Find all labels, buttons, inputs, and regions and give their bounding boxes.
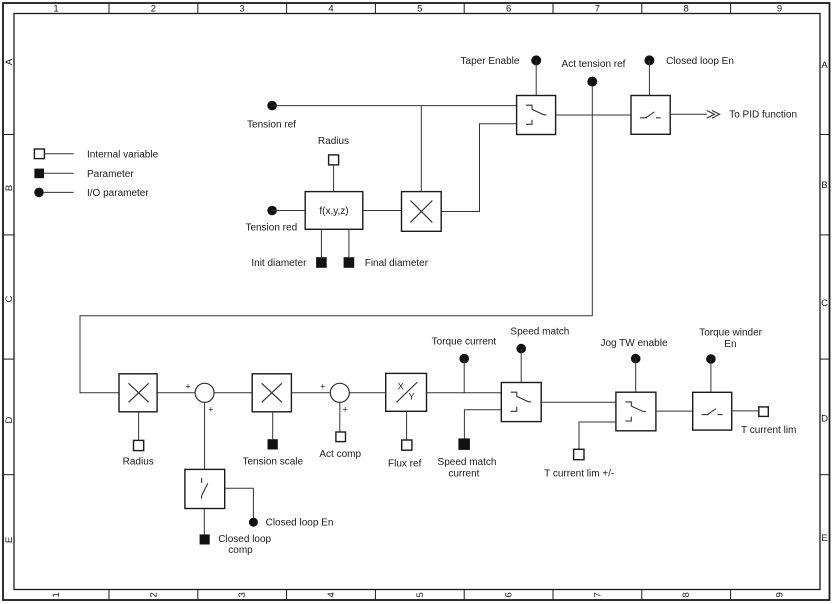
internal variable T current lim [741, 407, 796, 436]
svg-text:En: En [724, 339, 736, 350]
left ruler letters (rotated) [4, 58, 15, 543]
svg-text:Closed loop En: Closed loop En [266, 517, 334, 528]
svg-text:C: C [4, 295, 15, 302]
internal variable Radius (bottom) [123, 440, 154, 467]
I/O terminal Torque current [432, 337, 497, 364]
wire: multiplier M1 to switch SW1 lower input [441, 124, 516, 212]
svg-text:+: + [320, 381, 325, 391]
svg-text:+: + [208, 405, 213, 415]
wire: M2 to summing node S1 [157, 392, 195, 394]
wire: SW4 lower input from Speed match current [464, 410, 501, 439]
wire: SW1 output to switch SW2 [556, 114, 631, 116]
wire: f block to Final diameter parameter [348, 229, 350, 257]
svg-text:B: B [821, 180, 827, 191]
svg-text:Torque winder: Torque winder [699, 328, 762, 339]
svg-text:Final diameter: Final diameter [365, 258, 429, 269]
svg-text:8: 8 [681, 592, 692, 597]
parameter Init diameter [251, 257, 326, 269]
svg-text:Speed match: Speed match [438, 457, 497, 468]
svg-text:Act tension ref: Act tension ref [562, 59, 626, 70]
svg-text:5: 5 [417, 4, 422, 15]
wire: S1 down to switch SW3 [204, 402, 206, 469]
wire: f block to multiplier M1 [363, 210, 402, 212]
svg-text:current: current [448, 468, 479, 479]
svg-text:Init diameter: Init diameter [251, 258, 307, 269]
top ruler numbers [53, 4, 782, 15]
svg-text:A: A [4, 58, 15, 65]
wire: SW5 to switch SW6 [656, 410, 693, 412]
svg-text:Jog TW enable: Jog TW enable [600, 338, 668, 349]
wire: Tension red to f block [272, 210, 305, 212]
svg-text:4: 4 [328, 4, 333, 15]
svg-text:Taper Enable: Taper Enable [461, 56, 520, 67]
function block f(x,y,z) [305, 192, 363, 230]
legend: I/O parameter symbol [34, 188, 149, 199]
I/O terminal Closed loop En (bottom) [249, 517, 334, 528]
svg-text:A: A [821, 60, 828, 71]
wire: Taper Enable to switch SW1 [535, 60, 537, 95]
switch SW3 (closed loop comp) [185, 469, 225, 508]
svg-text:f(x,y,z): f(x,y,z) [319, 206, 348, 217]
svg-text:Torque current: Torque current [432, 337, 497, 348]
internal variable Act comp [319, 432, 361, 460]
wire: M3 to summing node S2 [291, 392, 330, 394]
internal variable Radius (top) [318, 136, 349, 165]
svg-text:Parameter: Parameter [87, 169, 134, 180]
wire: SW6 output to T current lim [732, 410, 759, 412]
switch SW2 (closed loop enable) [631, 96, 670, 135]
svg-text:Tension ref: Tension ref [247, 119, 296, 130]
wire: Closed loop En to switch SW2 [648, 60, 650, 95]
svg-text:5: 5 [415, 592, 426, 597]
svg-text:6: 6 [506, 4, 511, 15]
wire: S1 to multiplier M3 [214, 392, 252, 394]
svg-text:7: 7 [592, 592, 603, 597]
I/O terminal Act tension ref [562, 59, 626, 87]
svg-text:+: + [342, 405, 347, 415]
internal variable T current lim +/- [544, 449, 614, 479]
wire: D1 to Flux ref internal variable [406, 411, 408, 440]
wire: SW3 bottom to Closed loop comp parameter [203, 509, 205, 535]
summing node S2 [320, 381, 349, 414]
I/O terminal Jog TW enable [600, 338, 668, 363]
wire: S2 to divider D1 [349, 392, 385, 394]
parameter Speed match current [438, 438, 497, 479]
svg-text:3: 3 [240, 4, 245, 15]
multiplier M2 [119, 374, 157, 412]
right ruler letters [821, 60, 828, 544]
svg-text:Flux ref: Flux ref [388, 459, 422, 470]
svg-text:3: 3 [237, 592, 248, 597]
svg-text:Tension red: Tension red [245, 222, 297, 233]
left ruler ticks [3, 135, 14, 475]
I/O terminal Tension red [245, 206, 297, 234]
svg-text:1: 1 [51, 592, 62, 597]
switch SW1 (taper select) [517, 96, 556, 135]
svg-text:D: D [4, 416, 15, 423]
svg-text:X: X [398, 381, 404, 391]
svg-text:Speed match: Speed match [510, 326, 569, 337]
svg-text:2: 2 [148, 592, 159, 597]
wire: Radius square to f block [333, 165, 335, 192]
I/O terminal Tension ref [247, 101, 296, 131]
svg-text:7: 7 [595, 4, 600, 15]
wire: Torque winder En to switch SW6 [710, 359, 712, 392]
svg-text:E: E [4, 537, 15, 543]
svg-text:2: 2 [151, 4, 156, 15]
multiplier M3 (tension scale) [252, 374, 291, 412]
svg-text:E: E [821, 533, 827, 544]
svg-text:9: 9 [777, 4, 782, 15]
I/O terminal Closed loop En (top) [644, 55, 734, 67]
arrow to PID function [707, 110, 797, 121]
summing node S1 [185, 381, 214, 414]
legend: parameter symbol [34, 169, 134, 180]
svg-text:Closed loop: Closed loop [218, 534, 271, 545]
I/O terminal Torque winder En [699, 328, 762, 364]
svg-text:9: 9 [775, 592, 786, 597]
wire: Torque current down to main wire [463, 359, 465, 393]
svg-text:4: 4 [326, 592, 337, 597]
I/O terminal Speed match [510, 326, 569, 353]
wire: SW4 to switch SW5 [541, 401, 616, 403]
svg-text:To PID function: To PID function [729, 110, 797, 121]
wire: Speed match to switch SW4 [520, 349, 522, 383]
wire: SW3 side output to Closed loop En terminal [225, 488, 254, 518]
svg-text:comp: comp [228, 545, 253, 556]
wire: f block to Init diameter parameter [320, 229, 322, 257]
wire: SW5 lower input from T current lim +/- [579, 422, 616, 449]
svg-text:Radius: Radius [123, 457, 154, 468]
svg-text:6: 6 [504, 592, 515, 597]
svg-text:Closed loop En: Closed loop En [666, 56, 734, 67]
svg-text:T current lim: T current lim [741, 425, 796, 436]
right ruler ticks [820, 135, 830, 475]
multiplier M1 [402, 192, 442, 232]
divider D1 (x/y) [386, 373, 427, 411]
switch SW5 (jog select) [616, 392, 656, 431]
wire: Act tension ref long feedback down-left to multiplier M2 [80, 87, 592, 393]
wire: tap down to multiplier M1 [420, 106, 422, 192]
parameter Closed loop comp [200, 534, 272, 556]
legend: internal variable symbol [34, 149, 158, 160]
svg-text:B: B [4, 185, 15, 191]
svg-text:D: D [821, 414, 828, 425]
wire: Jog TW enable to switch SW5 [635, 359, 637, 393]
svg-text:Act comp: Act comp [319, 449, 361, 460]
bottom ruler numbers (rotated) [51, 592, 786, 597]
svg-text:8: 8 [684, 4, 689, 15]
I/O terminal Taper Enable [461, 55, 542, 67]
svg-text:Internal variable: Internal variable [87, 149, 159, 160]
svg-text:T current lim +/-: T current lim +/- [544, 468, 614, 479]
bottom ruler ticks [109, 590, 731, 601]
svg-text:+: + [185, 381, 190, 391]
svg-text:Y: Y [409, 392, 415, 402]
svg-text:Radius: Radius [318, 136, 349, 147]
svg-text:I/O parameter: I/O parameter [87, 188, 149, 199]
svg-text:Tension scale: Tension scale [243, 457, 304, 468]
parameter Final diameter [344, 257, 429, 269]
wire: M2 to Radius internal variable [138, 412, 140, 441]
internal variable Flux ref [388, 440, 422, 470]
wire: D1 to switch SW4 [427, 392, 502, 394]
svg-text:1: 1 [53, 4, 58, 15]
wire: Tension ref to switch SW1 top input [272, 105, 516, 107]
svg-text:C: C [821, 298, 828, 309]
wire: SW2 output [670, 113, 707, 115]
switch SW6 (torque winder enable) [693, 392, 732, 430]
wire: M3 to Tension scale parameter [272, 412, 274, 439]
top ruler ticks [109, 3, 731, 14]
switch SW4 (speed match select) [501, 383, 541, 422]
parameter Tension scale [243, 439, 304, 468]
wire: S2 down to Act comp [339, 402, 341, 432]
